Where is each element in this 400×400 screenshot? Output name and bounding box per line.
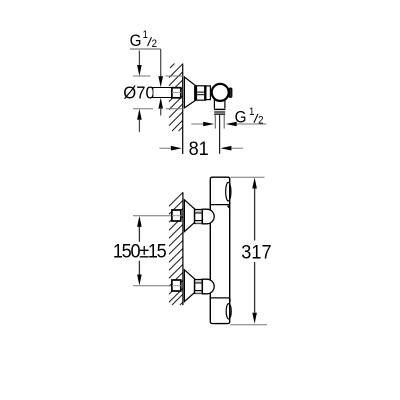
317 dimension top arrow <box>252 178 257 189</box>
G12 right underline <box>234 123 266 125</box>
wall pipe box (top assembly) <box>172 88 181 98</box>
svg-text:2: 2 <box>258 115 264 127</box>
317 dimension line lower segment <box>254 262 256 313</box>
union nut (top fitting) <box>197 86 206 100</box>
supply nipple (G1/2 thread) outline <box>153 87 172 98</box>
cap joint top <box>210 204 230 206</box>
bar body <box>210 177 229 323</box>
wall pipe box centerline <box>172 92 181 94</box>
81 left line <box>159 147 171 149</box>
hose lines <box>214 115 216 129</box>
wall B (bottom) hatching <box>169 192 183 305</box>
connection top: nut <box>195 210 203 224</box>
O70 extension top <box>133 76 267 325</box>
svg-text:G: G <box>235 108 247 127</box>
connection bottom: nut <box>195 280 203 294</box>
hose G1/2 right arrow <box>226 122 237 127</box>
hose nut bands <box>214 109 225 110</box>
svg-text:150±15: 150±15 <box>113 240 166 262</box>
wall B surface edge <box>182 192 184 305</box>
150 ext top <box>133 215 181 217</box>
tick on bar edge below bottom joint <box>229 299 230 301</box>
top cap ellipse <box>226 182 231 201</box>
ring <box>206 86 211 100</box>
connection top: wall pipe box <box>172 210 181 221</box>
150+-15 dimension line upper segment <box>138 227 140 242</box>
connection top: flange <box>184 200 195 232</box>
hose centerline <box>219 115 221 154</box>
150+-15 dimension top arrow <box>137 216 142 227</box>
tab on right of circle <box>229 88 232 97</box>
tick on bar edge below top joint <box>228 206 230 208</box>
connection bottom: dome <box>202 279 214 294</box>
cap joint bottom <box>210 297 230 299</box>
hose G1/2 left arrow <box>203 122 214 127</box>
317 ext top <box>231 176 265 178</box>
svg-text:1: 1 <box>249 107 255 119</box>
317 dimension bottom arrow <box>252 313 257 324</box>
wall A surface edge <box>182 64 184 155</box>
317 dimension line upper segment <box>254 189 256 241</box>
right G 1/2 text <box>235 107 264 127</box>
svg-text:G: G <box>130 31 142 50</box>
81 dimension right arrow (at hose axis) <box>220 146 231 151</box>
svg-text:1: 1 <box>143 30 149 42</box>
valve body circle <box>212 84 229 101</box>
O70 dimension top arrow + tail <box>138 51 140 67</box>
81 dimension left arrow (at wall) <box>171 146 182 151</box>
text G 1/2 top <box>130 30 161 50</box>
neck below circle <box>213 100 215 109</box>
150 ext bottom <box>133 285 181 287</box>
svg-text:81: 81 <box>189 137 209 159</box>
svg-text:317: 317 <box>241 241 271 263</box>
317 ext bottom <box>230 324 267 326</box>
escutcheon flange (top fitting) <box>184 77 195 108</box>
svg-text:Ø70: Ø70 <box>123 83 154 102</box>
O70 extension bottom <box>133 108 153 110</box>
leader line from G1/2 label down to pipe nipple <box>160 49 162 78</box>
G1/2 upper arrow (down onto nipple) <box>158 76 163 87</box>
G12 mid left line <box>191 123 203 125</box>
O70 dimension bottom arrow + tail <box>137 109 142 120</box>
svg-text:2: 2 <box>152 39 158 51</box>
150+-15 dimension line lower segment <box>138 261 140 275</box>
connection top: dome <box>202 209 214 224</box>
150+-15 dimension bottom arrow <box>137 275 142 286</box>
G1/2 lower arrow (up onto nipple) <box>158 98 163 109</box>
wall A (top) hatching <box>169 64 183 132</box>
connection bottom: wall pipe box <box>172 280 181 291</box>
connection top: box centerline <box>172 215 181 217</box>
connection bottom: flange <box>184 270 195 302</box>
bottom cap ellipse <box>226 304 231 319</box>
connection bottom: box centerline <box>172 285 181 287</box>
81 right line <box>231 147 243 149</box>
